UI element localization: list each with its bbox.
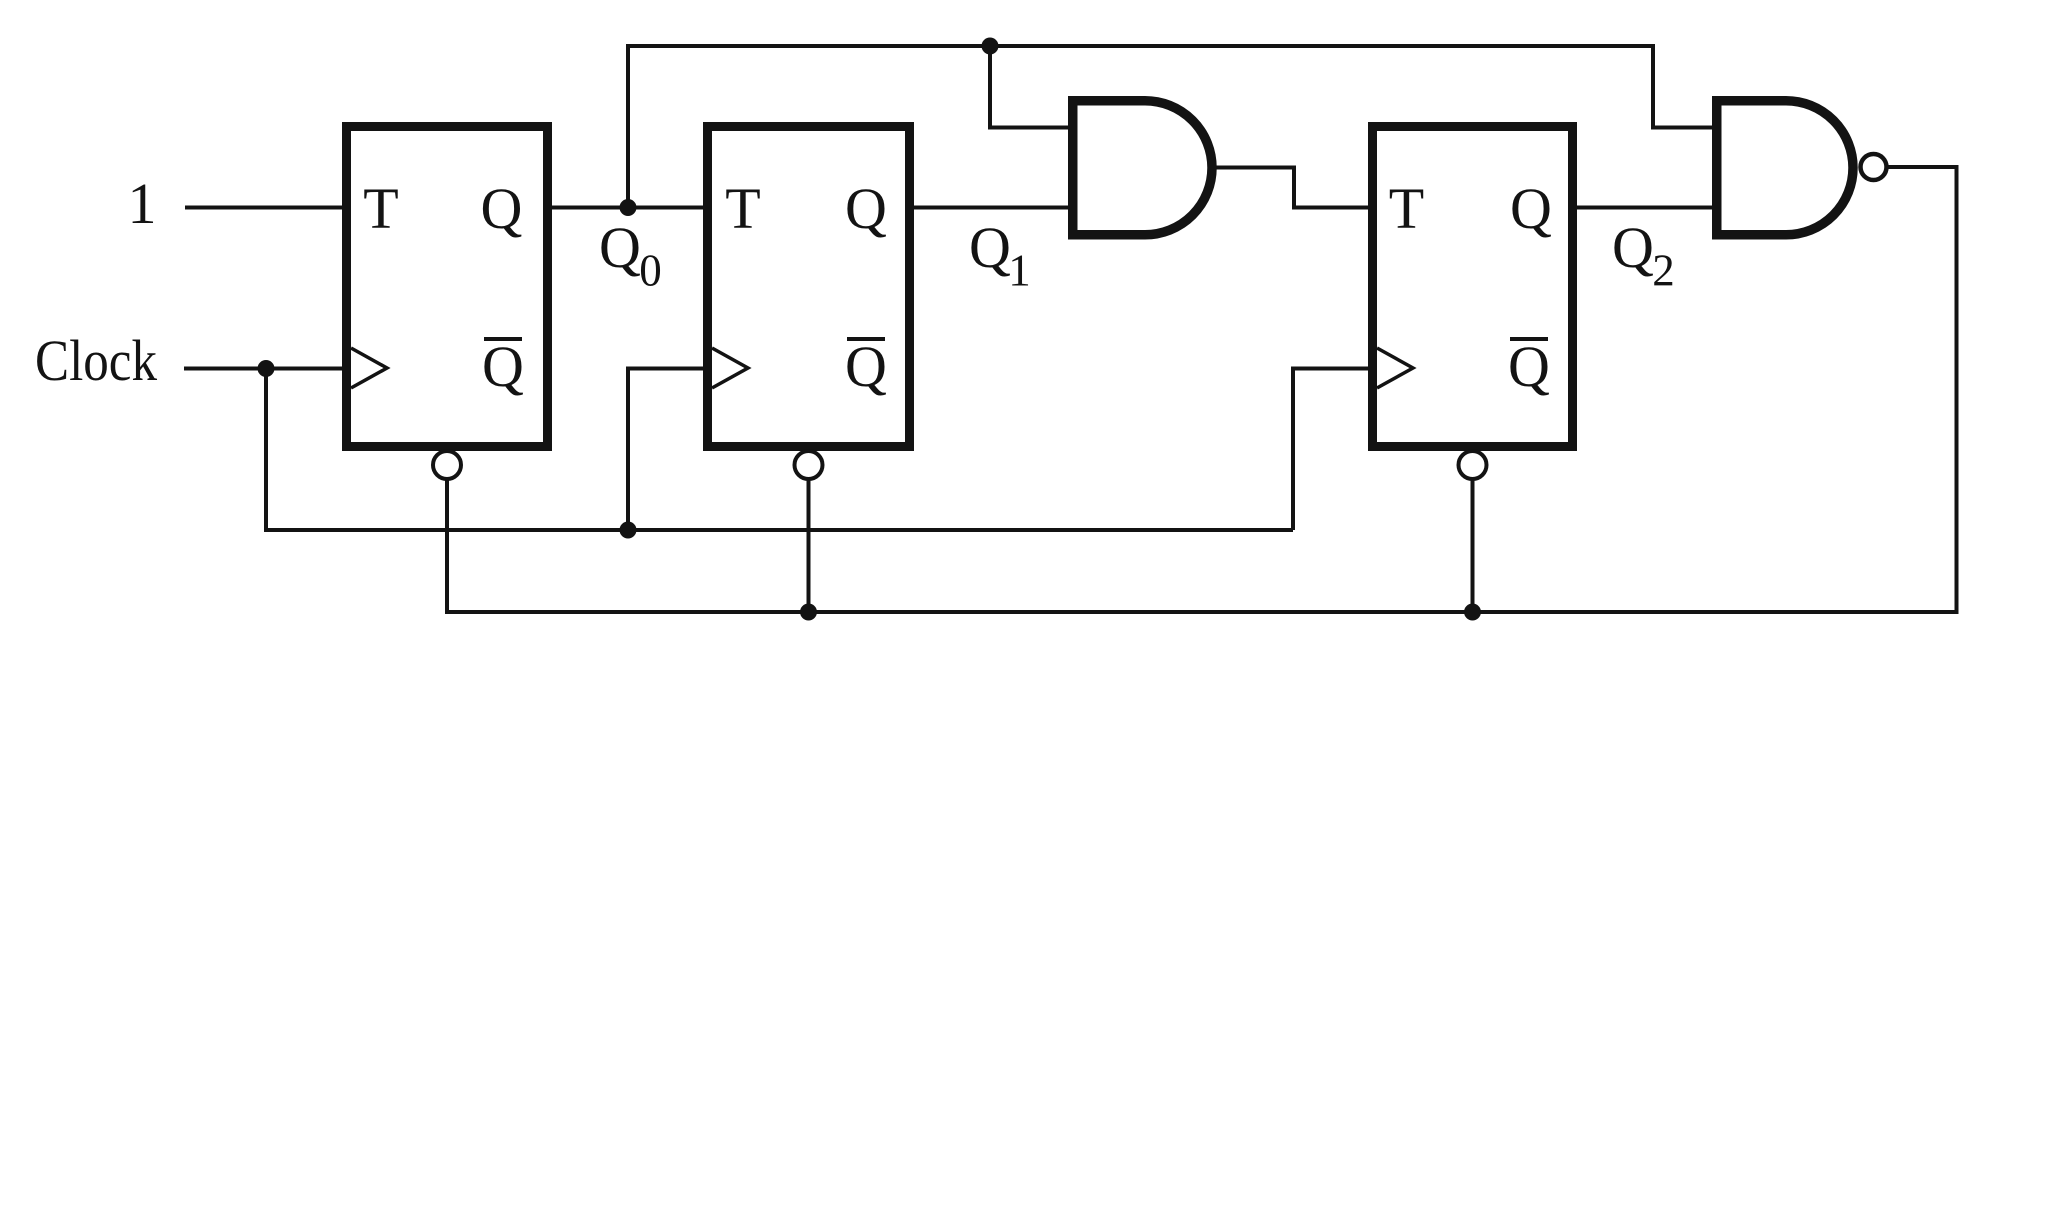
- svg-text:Q: Q: [482, 334, 524, 399]
- svg-text:T: T: [725, 176, 760, 241]
- svg-text:Q: Q: [845, 176, 887, 241]
- svg-text:T: T: [1389, 176, 1424, 241]
- svg-text:Clock: Clock: [35, 328, 157, 393]
- svg-text:Q: Q: [969, 215, 1011, 280]
- svg-text:Q: Q: [845, 334, 887, 399]
- svg-text:0: 0: [639, 246, 662, 296]
- svg-text:Q: Q: [1612, 215, 1654, 280]
- svg-text:T: T: [363, 176, 398, 241]
- svg-text:2: 2: [1652, 246, 1675, 296]
- svg-text:1: 1: [1008, 246, 1031, 296]
- svg-text:Q: Q: [481, 176, 523, 241]
- svg-text:Q: Q: [599, 215, 641, 280]
- svg-text:Q: Q: [1508, 334, 1550, 399]
- svg-text:Q: Q: [1510, 176, 1552, 241]
- svg-text:1: 1: [128, 171, 157, 236]
